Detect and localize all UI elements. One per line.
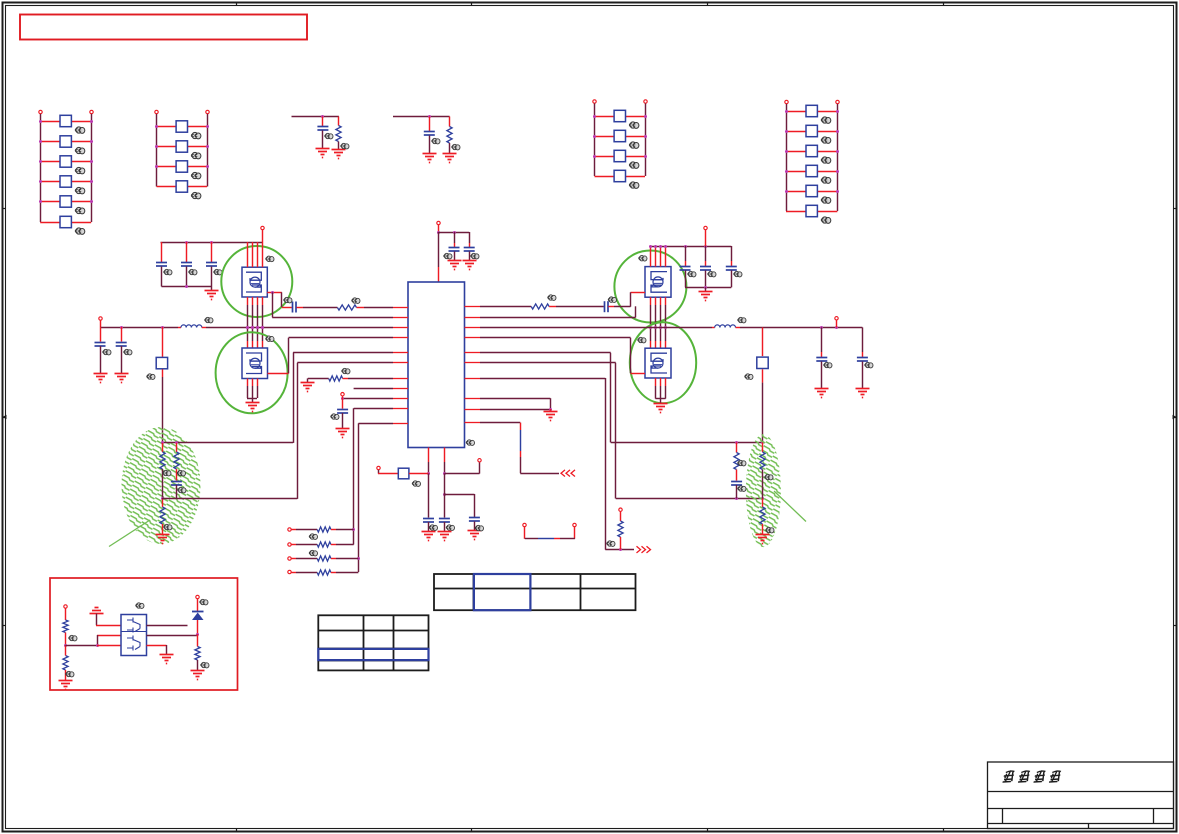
- net TERM2 wire down to termination network: [297, 363, 393, 499]
- transistor input wires (detail box): [66, 608, 122, 648]
- polarized cap CP on right AVDD branch: [745, 327, 769, 442]
- transformer T4 (lower-right, in green circle): [630, 322, 696, 403]
- transformer T2 (lower-left, in green circle): [216, 332, 288, 413]
- net MDI2+ : resistor R and series cap C to T3: [480, 295, 631, 312]
- U1 left pin stubs: [393, 308, 408, 424]
- title block frame: [988, 762, 1174, 829]
- net MDI1+ wire to T2 output: [289, 338, 394, 374]
- option table 2 (3x4, blue highlighted row): [318, 615, 428, 670]
- net TERM4 wire to right termination: [480, 363, 764, 501]
- capacitor bank 1 (6 bypass caps): [39, 110, 93, 234]
- title note box: [20, 15, 307, 40]
- resistor R to ground on U1 left pin: [301, 368, 394, 391]
- left termination network R/R/C/R to ground: [156, 441, 298, 544]
- transformer T3 (upper-right, in green circle): [614, 251, 686, 323]
- net MDI3+ wire to T4 output: [480, 338, 631, 374]
- REXT pin with cap C to ground: [331, 393, 393, 438]
- T4 bottom winding wires to ground: [654, 378, 668, 413]
- VDDIO branch with test pin and caps to ground: [438, 448, 484, 541]
- T3 primary wires from bus: [651, 246, 666, 267]
- decoupling cap trio upper-left with pin: [156, 226, 264, 299]
- IC U1 (PHY controller): [408, 282, 465, 448]
- hatched highlight ellipse left: [122, 427, 201, 544]
- U1 ground pins to GND: [480, 398, 558, 420]
- VDD core branch: pin, cap CP, filter cap to ground: [377, 448, 438, 541]
- net RESET input from off-page arrow: [480, 423, 575, 477]
- net MDI2- wire: [480, 317, 636, 319]
- RC filter pair 1 (cap+resistor to ground): [292, 115, 349, 159]
- T3 output jog wires: [631, 292, 646, 317]
- net INT output with pullup R to off-page arrow: [480, 378, 651, 553]
- net TERM3 wire to right termination: [480, 353, 764, 445]
- T2 output wire: [268, 373, 289, 375]
- net MDI0+ : series cap C and resistor R to U1 pin: [282, 297, 393, 312]
- transistor output wires (detail box): [147, 626, 197, 664]
- label T2: [266, 336, 274, 342]
- AVDD filter caps C to ground: [94, 327, 132, 383]
- detail note box (red): [50, 578, 238, 690]
- net LED1 wire down to resistor rows: [357, 423, 393, 572]
- callout leader line left: [109, 520, 150, 547]
- option table 1 (4x2, blue highlighted column): [434, 574, 636, 610]
- strap resistors R x4 with pins: [288, 527, 359, 575]
- power net VCC with decoupling caps above IC: [437, 221, 479, 282]
- right termination network R/R/C/R to ground: [731, 442, 774, 543]
- T4 output wire: [631, 373, 646, 375]
- callout leader line right: [774, 491, 806, 522]
- stub wire U1 left pin: [354, 388, 393, 390]
- transformer T1 (upper-left, in green circle): [221, 246, 292, 317]
- label T4: [638, 337, 646, 343]
- net AVDD bus with ferrite bead L1: [99, 317, 393, 329]
- wires T3 to T4 crossing bus: [649, 297, 667, 348]
- RC filter pair 2 (cap+resistor to ground): [393, 115, 460, 163]
- label Q1: [136, 603, 144, 609]
- U1 right pin stubs: [465, 307, 481, 423]
- polarized cap CP on AVDD branch to termination: [147, 327, 168, 443]
- net TERM1 wire down to termination network: [293, 352, 393, 443]
- label U1: [466, 440, 474, 446]
- net LED0 wire down to resistor rows: [352, 408, 393, 544]
- decoupling cap trio upper-right with pin: [649, 226, 742, 300]
- net MDI0- wire: [272, 317, 393, 319]
- jumper link between two pins: [523, 523, 576, 539]
- wires T1 to T2 crossing bus: [246, 297, 264, 348]
- net AVDD right bus with ferrite bead L2: [480, 317, 862, 329]
- capacitor bank 3 (4 bypass caps): [593, 100, 647, 189]
- voltage divider R/R with pin (in detail box): [59, 605, 77, 690]
- zener diode D1 and resistor R to ground (detail box): [191, 595, 209, 679]
- T1 secondary output jog wires: [267, 291, 282, 317]
- AVDD right filter caps to ground: [815, 327, 873, 397]
- hatched highlight ellipse right: [746, 434, 781, 547]
- dual transistor Q1 (detail box): [121, 615, 147, 656]
- capacitor bank 4 (6 bypass caps): [785, 100, 839, 223]
- capacitor bank 2 (4 bypass caps): [155, 110, 209, 199]
- T2 bottom winding wires to ground: [246, 379, 260, 412]
- label T3: [639, 255, 647, 261]
- label T1: [266, 256, 274, 262]
- company name text: [1002, 770, 1061, 782]
- T1 primary wires from bus: [248, 242, 263, 267]
